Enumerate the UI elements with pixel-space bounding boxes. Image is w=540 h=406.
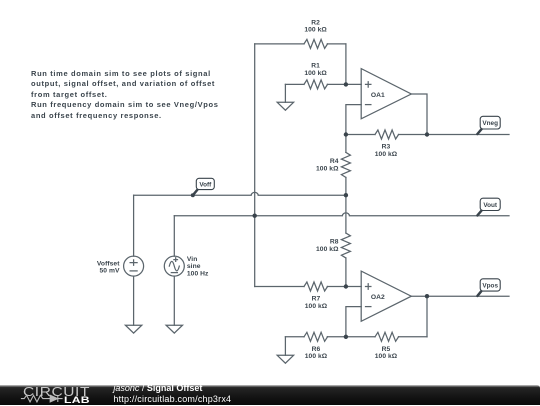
svg-text:100 kΩ: 100 kΩ [305, 303, 328, 310]
wire: R7 line y=286.5 from rail [255, 286, 362, 288]
ground G3 Vin [166, 325, 182, 333]
svg-text:100 kΩ: 100 kΩ [304, 27, 327, 34]
svg-text:R6: R6 [312, 346, 321, 353]
node: junction R3 left / R4 top [344, 132, 348, 136]
sine source Vin V2 [164, 256, 184, 276]
label R6 [305, 346, 328, 360]
svg-text:Voff: Voff [199, 181, 212, 188]
wire: R1 line y=84.4 [285, 83, 361, 85]
node: junction R6/R5 OA2 - net [344, 335, 348, 339]
wire: R5 line y=336.8 [346, 336, 427, 338]
node: junction OA1 + input [344, 82, 348, 86]
resistor R5 [375, 332, 399, 341]
svg-text:Vneg: Vneg [482, 120, 498, 127]
label Voffset value [97, 260, 120, 274]
voltage source Voffset V1 [124, 256, 144, 276]
logo resistor-diode symbol [18, 393, 68, 405]
label R7 [305, 296, 328, 310]
svg-text:OA1: OA1 [371, 92, 385, 99]
svg-text:Vout: Vout [483, 202, 498, 209]
footer credit text [113, 383, 231, 406]
svg-text:100 kΩ: 100 kΩ [316, 246, 339, 253]
wire: Vin source top riser [173, 216, 175, 256]
flag Vneg [477, 116, 500, 134]
label R8 [316, 239, 339, 253]
svg-text:100 Hz: 100 Hz [187, 270, 209, 277]
wire: Vin bottom riser [173, 276, 175, 325]
svg-text:100 kΩ: 100 kΩ [316, 165, 339, 172]
node: junction Voff / R4 bottom [344, 193, 348, 197]
wire: OA1 inverting input from x=346 [346, 105, 361, 135]
resistor R1 [304, 80, 328, 89]
flag Vout [477, 198, 500, 215]
logo CIRCUIT text [23, 384, 90, 399]
svg-text:Voffset: Voffset [97, 260, 120, 267]
svg-text:100 kΩ: 100 kΩ [305, 353, 328, 360]
label R2 [304, 19, 327, 33]
label R3 [375, 144, 398, 158]
resistor R2 [304, 39, 328, 48]
ground G1 [277, 102, 293, 110]
wire: OA2 inverting input [346, 307, 361, 337]
node: junction Vneg [425, 132, 429, 136]
svg-text:R7: R7 [312, 296, 321, 303]
wire: ground riser for R1 left [284, 84, 286, 102]
footer bar [0, 385, 540, 405]
flag Vpos [477, 279, 500, 296]
wire: OA1 output to Vneg [411, 94, 427, 135]
wire: R4 leads vertical x=346 [345, 135, 347, 196]
resistor R8 vertical [341, 233, 350, 258]
svg-text:50 mV: 50 mV [99, 268, 119, 275]
label Vin value [187, 256, 209, 277]
wire: OA2 output to Vpos [411, 295, 509, 297]
node: junction OA2 + input [344, 284, 348, 288]
note: instructions text [31, 69, 263, 122]
svg-text:R1: R1 [311, 63, 320, 70]
resistor R6 [304, 332, 328, 341]
svg-text:100 kΩ: 100 kΩ [304, 70, 327, 77]
wire: Voffset bottom riser [133, 276, 135, 325]
node: junction Voff flag tap [191, 193, 195, 197]
ground G4 [277, 355, 293, 363]
svg-text:Vin: Vin [187, 256, 197, 263]
op-amp OA2 [361, 271, 411, 321]
wire: R2 top net y=43.9 with leads [255, 43, 346, 45]
wire: vertical from R2 right down to + node [345, 44, 347, 85]
svg-text:R2: R2 [311, 19, 320, 26]
label R1 [304, 63, 327, 77]
wire: Voff line y=195.2 with hop over x=255 [134, 192, 346, 195]
node: junction Vout rail [253, 214, 257, 218]
wire: Vneg line y=134.5 [427, 134, 509, 136]
svg-text:R4: R4 [330, 158, 339, 165]
logo LAB text [64, 395, 90, 405]
op-amp OA1 [361, 69, 411, 119]
wire: R6 line y=336.8 [285, 336, 346, 338]
wire: ground riser for R6 left [284, 337, 286, 356]
wire: R5 right to OA2 output [426, 296, 428, 337]
svg-text:R3: R3 [382, 144, 391, 151]
flag Voff [193, 178, 214, 195]
svg-text:sine: sine [187, 263, 201, 270]
resistor R4 vertical [341, 152, 350, 177]
ground G2 Voffset [125, 325, 141, 333]
svg-text:100 kΩ: 100 kΩ [375, 353, 398, 360]
wire: R8 leads vertical x=346 [345, 195, 347, 286]
wire: Voffset source top riser [133, 195, 135, 256]
label R5 [375, 346, 398, 360]
wire: left rail Vout net vertical x=255 from R2 to R7 [254, 44, 256, 287]
resistor R7 [304, 282, 328, 291]
wire: Vout line y=215.7 with hop over x=346 [174, 213, 509, 216]
label R4 [316, 158, 339, 172]
svg-text:100 kΩ: 100 kΩ [375, 151, 398, 158]
resistor R3 [375, 130, 399, 139]
svg-text:R5: R5 [382, 346, 391, 353]
svg-text:R8: R8 [330, 239, 339, 246]
wire: R3 feedback line y=134.5 [346, 134, 427, 136]
svg-text:OA2: OA2 [371, 294, 385, 301]
svg-text:Vpos: Vpos [482, 283, 498, 290]
node: junction Vpos [425, 294, 429, 298]
